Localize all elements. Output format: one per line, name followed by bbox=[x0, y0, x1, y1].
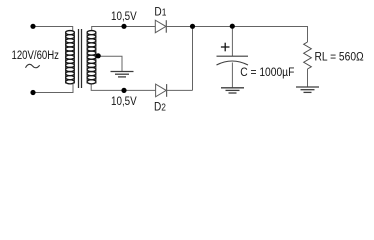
svg-text:C = 1000µF: C = 1000µF bbox=[240, 66, 294, 79]
svg-text:D2: D2 bbox=[154, 101, 166, 114]
svg-text:10,5V: 10,5V bbox=[111, 95, 137, 108]
svg-text:RL = 560Ω: RL = 560Ω bbox=[315, 51, 364, 64]
svg-text:D1: D1 bbox=[154, 6, 166, 19]
svg-text:120V/60Hz: 120V/60Hz bbox=[12, 49, 59, 62]
svg-text:10,5V: 10,5V bbox=[111, 10, 137, 23]
